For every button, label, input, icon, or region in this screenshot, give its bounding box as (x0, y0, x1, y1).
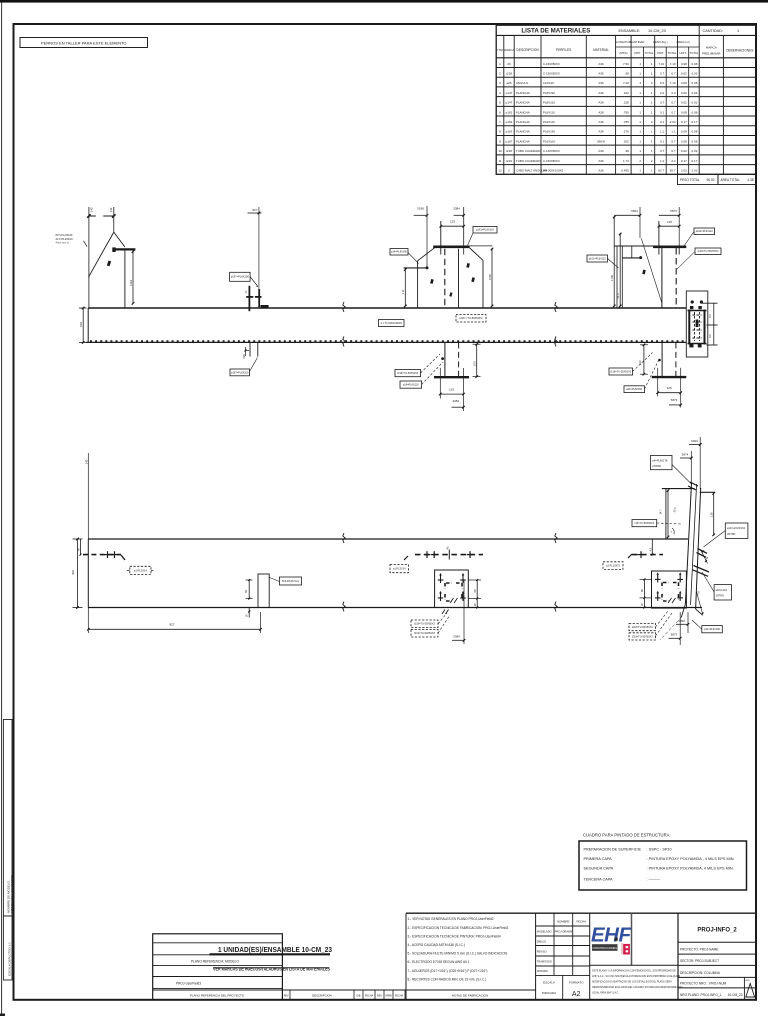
svg-text:.98: .98 (625, 71, 630, 75)
svg-text:REV: REV (284, 994, 289, 997)
view2 mid base plate hidden angles (445, 583, 462, 589)
view1 beam top flange (88, 307, 686, 309)
svg-text:.98: .98 (625, 149, 630, 153)
svg-text:NOMBRE: NOMBRE (557, 920, 569, 924)
svg-text:14.7: 14.7 (659, 509, 663, 515)
svg-text:ENSAMBLE:: ENSAMBLE: (619, 29, 641, 33)
view1 right below labels (609, 368, 633, 375)
svg-text:LISTA DE MATERIALES: LISTA DE MATERIALES (521, 28, 590, 35)
svg-text:ALT=PL203/16: ALT=PL203/16 (56, 237, 74, 241)
svg-text:1.74: 1.74 (623, 159, 629, 163)
svg-text:4mm mm d: 4mm mm d (56, 241, 70, 245)
svg-text:PL6X110: PL6X110 (543, 110, 555, 114)
materials table column lines (503, 35, 505, 174)
svg-text:A36: A36 (598, 159, 604, 163)
svg-text:ESCALA DEPLOTEO 1:1: ESCALA DEPLOTEO 1:1 (7, 942, 11, 976)
svg-text:PLANCHA: PLANCHA (516, 91, 530, 95)
svg-text:125: 125 (667, 220, 672, 224)
svg-text:MARCA: MARCA (504, 48, 515, 52)
svg-text:2NTRD: 2NTRD (716, 595, 725, 598)
svg-text:PRELIMINAR: PRELIMINAR (702, 52, 721, 56)
view1 dim 125 top mid (441, 225, 464, 227)
svg-text:2.- ESPECIFICACION TECNICA DE: 2.- ESPECIFICACION TECNICA DE FABRICACIO… (408, 926, 509, 930)
svg-text:PL8X190: PL8X190 (543, 91, 555, 95)
svg-text:MATERIAL: MATERIAL (593, 48, 609, 52)
view2 label a1 dashed (130, 566, 151, 574)
view1 mid left bracket (404, 267, 428, 269)
svg-text:CANTIDAD: CANTIDAD (630, 40, 644, 44)
svg-text:50: 50 (473, 589, 477, 592)
svg-text:82.7: 82.7 (658, 169, 664, 173)
view1 mid below-beam labels (395, 370, 421, 377)
view1 mid right vertical dim (491, 248, 493, 307)
view2 bracket vertical dim 14.7 (667, 490, 669, 538)
svg-text:PLANCHA: PLANCHA (516, 110, 530, 114)
svg-text:A2: A2 (572, 991, 581, 998)
svg-text:t219: t219 (506, 159, 512, 163)
view2 diagonal bottom leader lines (660, 617, 681, 640)
svg-text:1736: 1736 (610, 275, 614, 281)
EHF logo constructiones bar (592, 944, 618, 951)
svg-text:p14=PL8X190: p14=PL8X190 (391, 251, 408, 254)
view1 gusset vertical dim (132, 251, 134, 304)
top scan bar (0, 0, 768, 3)
svg-text:p161=PL6X110: p161=PL6X110 (476, 228, 494, 232)
title block left stack box (153, 934, 283, 1000)
svg-text:0.98: 0.98 (692, 62, 698, 66)
svg-text:.785: .785 (623, 120, 629, 124)
view1 end plate outer (686, 291, 708, 357)
svg-text:A36: A36 (598, 120, 604, 124)
svg-text:5873: 5873 (670, 209, 677, 213)
view1 right dim 125 (659, 225, 679, 227)
svg-text:82.7: 82.7 (670, 169, 676, 173)
left margin model-name strip (3, 720, 12, 917)
svg-text:PROJ-INFO_2: PROJ-INFO_2 (697, 928, 737, 934)
svg-text:HA-200X100X5: HA-200X100X5 (543, 169, 563, 173)
view2 label p4 top (651, 455, 673, 469)
svg-text:A36: A36 (598, 169, 604, 173)
svg-text:C-150X50X3: C-150X50X3 (543, 149, 560, 153)
svg-text:3384: 3384 (453, 635, 460, 639)
svg-text:t218: t218 (506, 71, 512, 75)
svg-text:1.03: 1.03 (472, 361, 476, 367)
view2 right 4.5 dim (651, 539, 653, 555)
svg-text:ESTE PLANO Y LA INFORMACION CO: ESTE PLANO Y LA INFORMACION CONTENIDA EN… (592, 970, 676, 973)
svg-text:0.08: 0.08 (681, 130, 687, 134)
svg-text:INDICADA: INDICADA (542, 991, 556, 995)
svg-text:MARCA: MARCA (706, 46, 717, 50)
view1 right below dim 5873 (669, 404, 681, 406)
view1 shop bolt cross 2 (258, 289, 260, 307)
svg-text:DIB: DIB (357, 994, 361, 997)
view2 dims 5850 5873 (687, 612, 689, 633)
svg-text:NRO.PLANO: PROJ-INFO_1: NRO.PLANO: PROJ-INFO_1 (680, 993, 721, 997)
svg-text:0.08: 0.08 (692, 110, 698, 114)
view2 mid below labels dashed (411, 620, 438, 628)
svg-text:ESCALA: ESCALA (543, 981, 555, 985)
view2 diagonal lower stub (681, 604, 685, 617)
svg-text:p163: p163 (506, 130, 513, 134)
svg-text:ITM: ITM (497, 48, 503, 52)
svg-text:.276: .276 (623, 130, 629, 134)
view1 right assembly verticals (616, 246, 618, 308)
EHF logo box (631, 913, 633, 965)
svg-text:5.- SOLDADURA FILETE MINIMO 5: 5.- SOLDADURA FILETE MINIMO 5 mm (S.I.C.… (408, 952, 508, 956)
svg-text:6795: 6795 (488, 274, 492, 280)
svg-text:2.02: 2.02 (692, 169, 698, 173)
view1 right rotated dims (613, 216, 615, 307)
view2 right below dashed labels (629, 624, 656, 631)
view2 left extension line (87, 453, 89, 539)
svg-text:TERCERA CAPA: TERCERA CAPA (584, 878, 614, 882)
view2 mid bolt centerline (415, 554, 483, 556)
svg-text:UNIT.: UNIT. (634, 51, 641, 55)
view2 bracket small arc (672, 528, 674, 534)
svg-text:125: 125 (450, 220, 455, 224)
svg-text:2.02: 2.02 (681, 169, 687, 173)
title block outer top edge (406, 912, 756, 914)
materials table data rows (496, 67, 756, 69)
svg-text:RESPONSABILIDAD EXCLUSIVA DEL: RESPONSABILIDAD EXCLUSIVA DEL USUARIO SI… (592, 986, 682, 989)
svg-text:8.- RECORTES CON RADIOS MIN. D: 8.- RECORTES CON RADIOS MIN. DE 15 mm. (… (408, 977, 487, 981)
view1 mid below-beam vertical dim (476, 344, 478, 376)
svg-text:p162=PL6X110: p162=PL6X110 (696, 230, 714, 233)
view1 mid connection extension line (426, 206, 428, 268)
svg-text:: SSPC - SP10: : SSPC - SP10 (647, 848, 672, 852)
svg-text:TOTAL: TOTAL (668, 51, 677, 55)
view2 diagonal member (685, 483, 691, 604)
view2 mid dim 3384 (463, 580, 465, 644)
view2 tab label box (280, 577, 302, 585)
svg-text:APRB: APRB (385, 994, 392, 997)
svg-text:TUBO CUADRADO: TUBO CUADRADO (516, 159, 542, 163)
view2 right dashed label p1 (603, 562, 623, 570)
svg-text:0.7: 0.7 (660, 149, 665, 153)
svg-text:2NTRD: 2NTRD (727, 533, 736, 536)
svg-text:125: 125 (667, 386, 672, 390)
view2 right bolt centerline (632, 554, 663, 556)
svg-text:C-150X50X3: C-150X50X3 (543, 62, 560, 66)
view2 dim 827 bottom (87, 608, 89, 634)
svg-text:0.17: 0.17 (692, 120, 698, 124)
svg-text:6023: 6023 (691, 439, 698, 443)
view1 beam left end line (87, 308, 89, 342)
view1 break marks right (555, 302, 557, 312)
svg-text:0.7: 0.7 (660, 71, 665, 75)
svg-text:: PINTURA EPOXY POLYAMIDA, 4 M: : PINTURA EPOXY POLYAMIDA, 4 MILS EPS MI… (647, 867, 734, 871)
view1 profile label on beam (379, 320, 405, 327)
view1 right below-beam vertical dim 1.03 (643, 345, 645, 374)
svg-text:t218=TU-50X50X3: t218=TU-50X50X3 (632, 626, 653, 629)
svg-text:FECHA: FECHA (395, 994, 404, 997)
svg-text:0.08: 0.08 (692, 81, 698, 85)
svg-text:C-150X50X3: C-150X50X3 (543, 159, 560, 163)
svg-text:TOTAL: TOTAL (690, 51, 699, 55)
svg-text:: ———: : ——— (647, 878, 661, 882)
svg-text:PL6X110: PL6X110 (543, 120, 555, 124)
svg-text:0.7: 0.7 (671, 71, 676, 75)
title block nombre-fecha table (553, 913, 555, 975)
svg-text:p167: p167 (506, 139, 513, 143)
view2 44 dim (701, 550, 708, 564)
view2 dim 6023 (689, 444, 700, 446)
view2 mid base plate weld hatch (450, 598, 458, 603)
svg-text:12: 12 (498, 169, 502, 173)
view1 mid below-beam stiffeners (444, 342, 446, 376)
view2 right base plate hidden angles (662, 583, 679, 589)
svg-text:SOLD3/16-5cm: SOLD3/16-5cm (282, 580, 299, 583)
svg-text:FECHA: FECHA (576, 920, 586, 924)
svg-text:t218=TU-50X50X3: t218=TU-50X50X3 (610, 370, 631, 373)
view1 mid below-beam dim 125 (440, 393, 463, 395)
svg-text:0.1: 0.1 (660, 120, 665, 124)
svg-text:3384: 3384 (453, 207, 460, 211)
svg-text:t218: t218 (506, 149, 512, 153)
svg-text:0.98: 0.98 (681, 62, 687, 66)
svg-text:a26: a26 (506, 81, 511, 85)
svg-text:p161=PL6X110: p161=PL6X110 (589, 257, 607, 260)
svg-text:a40=L2X2: a40=L2X2 (716, 589, 728, 592)
view1 weld dash on beam (261, 305, 269, 308)
svg-text:: PINTURA EPOXY POLYAMIDA , 4: : PINTURA EPOXY POLYAMIDA , 4 MILS EPS M… (647, 857, 735, 861)
svg-text:1.1: 1.1 (660, 130, 665, 134)
svg-text:0.08: 0.08 (692, 130, 698, 134)
svg-text:1.2: 1.2 (660, 159, 665, 163)
materials table title row (496, 34, 756, 36)
svg-text:50: 50 (244, 590, 248, 593)
svg-text:A36: A36 (598, 101, 604, 105)
svg-text:FORMATO: FORMATO (569, 981, 584, 985)
view2 mid base plate (435, 570, 469, 608)
svg-text:10-CM_23: 10-CM_23 (648, 29, 666, 33)
svg-text:4.38: 4.38 (747, 178, 753, 182)
svg-text:p41=PL6X160: p41=PL6X160 (704, 628, 721, 631)
view2 mid tab plate (258, 574, 269, 608)
view1 shop bolt cross 1 (248, 286, 250, 311)
svg-text:a1-PL2X14: a1-PL2X14 (393, 568, 406, 571)
outer thin border left (1, 2, 3, 1016)
svg-text:NOTAS DE FABRICACION: NOTAS DE FABRICACION (452, 993, 488, 997)
svg-text:MODELADO: MODELADO (537, 930, 552, 934)
view1 mid weld marks (430, 279, 434, 284)
view1 mid column body (417, 261, 419, 308)
svg-text:50: 50 (640, 589, 644, 592)
svg-text:PROYECTO: PROJ-NAME: PROYECTO: PROJ-NAME (680, 948, 718, 952)
view1 break marks left (343, 302, 345, 312)
view1 end plate inner cross dashes (693, 314, 702, 316)
svg-text:REVISO: REVISO (537, 949, 547, 953)
svg-text:p1-PL10X75: p1-PL10X75 (606, 565, 621, 568)
svg-text:MET-PUNAE UAN OESTER: MET-PUNAE UAN OESTER (10, 874, 14, 913)
view1 right weld mark (642, 270, 646, 275)
svg-text:1.36: 1.36 (710, 512, 714, 518)
svg-text:PLANCHA: PLANCHA (516, 101, 530, 105)
svg-text:300: 300 (71, 570, 75, 575)
view1 end plate inner channel (688, 310, 690, 345)
svg-text:EHF S.A.C., SU USO SIN PREVIA: EHF S.A.C., SU USO SIN PREVIA AUTORIZACI… (592, 975, 680, 978)
title block right column (677, 913, 679, 1000)
svg-text:PROJ-DRAWN: PROJ-DRAWN (555, 930, 573, 934)
svg-text:DIBUJO: DIBUJO (537, 939, 547, 943)
view2 mid weld marks below (442, 610, 449, 615)
svg-text:PLANCHA: PLANCHA (516, 130, 530, 134)
svg-text:t218=TU-50X50X3: t218=TU-50X50X3 (397, 372, 418, 375)
svg-text:0.7: 0.7 (671, 149, 676, 153)
svg-text:TRAMITADO: TRAMITADO (537, 960, 552, 964)
svg-text:a1-PL2X14: a1-PL2X14 (134, 568, 148, 572)
title block escala formato cells (562, 975, 564, 999)
view1 right label p162 (694, 228, 715, 235)
svg-text:AREA (m²): AREA (m²) (676, 40, 689, 44)
view1 gusset weld mark (107, 260, 111, 266)
svg-text:A36: A36 (598, 81, 604, 85)
svg-text:a41=L2X2X3/16: a41=L2X2X3/16 (727, 527, 746, 530)
svg-text:CANTIDAD:: CANTIDAD: (703, 29, 723, 33)
svg-text:827+PL203/16: 827+PL203/16 (56, 233, 74, 237)
svg-text:PL6X100: PL6X100 (543, 139, 555, 143)
svg-text:FECHA: FECHA (365, 994, 374, 997)
svg-text:0.02: 0.02 (681, 71, 687, 75)
svg-text:PRIMERA CAPA: PRIMERA CAPA (584, 857, 613, 861)
svg-text:p16=PL6X110: p16=PL6X110 (403, 384, 419, 387)
svg-text:AREA TOTAL: AREA TOTAL (721, 178, 741, 182)
svg-text:TOTAL: TOTAL (645, 51, 654, 55)
svg-text:0.06: 0.06 (681, 91, 687, 95)
view2 mid tab dims (248, 580, 250, 599)
view2 bolt centerline left (83, 554, 121, 556)
svg-text:7.- AGUJEROS (D17+1/16"), (D20: 7.- AGUJEROS (D17+1/16"), (D20+5/16"),P … (408, 969, 488, 973)
svg-text:PESO TOTAL: PESO TOTAL (680, 178, 700, 182)
svg-text:142: 142 (109, 207, 113, 212)
svg-text:1.11: 1.11 (401, 289, 405, 294)
svg-text:PESO (Kg.): PESO (Kg.) (653, 40, 668, 44)
view1 right bracket (622, 257, 641, 259)
svg-text:.790: .790 (623, 110, 629, 114)
svg-text:5873: 5873 (671, 632, 678, 636)
view1 top dimension line 140/142 (88, 207, 90, 308)
svg-text:A36: A36 (598, 149, 604, 153)
view1 mid top plate (433, 246, 470, 249)
view1 right below-beam stiffeners (661, 342, 663, 376)
svg-text:3384: 3384 (452, 399, 459, 403)
svg-text:C-150X50X3: C-150X50X3 (543, 71, 560, 75)
view2 t15 label (632, 520, 657, 527)
svg-text:0.7: 0.7 (671, 101, 676, 105)
svg-text:A36: A36 (598, 62, 604, 66)
view2 p41 label bottom (702, 626, 723, 633)
svg-text:p167=PL6X100: p167=PL6X100 (231, 275, 250, 279)
svg-text:5604: 5604 (631, 209, 638, 213)
svg-text:OBSERVACIONES: OBSERVACIONES (726, 49, 753, 53)
svg-text:t219=TU-50X50X3: t219=TU-50X50X3 (414, 632, 435, 635)
view1 hidden profile label on beam (456, 315, 486, 323)
svg-text:7.10: 7.10 (670, 81, 676, 85)
svg-text:2.0: 2.0 (671, 91, 676, 95)
svg-text:t218=TU-50X50X3: t218=TU-50X50X3 (414, 623, 435, 626)
materials table header rows (496, 57, 756, 59)
svg-text:0.495: 0.495 (621, 169, 629, 173)
view2 angle braces on diagonal (697, 549, 708, 558)
svg-text:0.02: 0.02 (692, 71, 698, 75)
svg-text:7.00: 7.00 (623, 81, 629, 85)
svg-text:REV: REV (377, 994, 382, 997)
svg-text:LONGITUD: LONGITUD (616, 40, 631, 44)
svg-text:3198: 3198 (417, 207, 424, 211)
svg-text:t218 = TU-50X50X3: t218 = TU-50X50X3 (460, 316, 484, 320)
svg-text:0.06: 0.06 (692, 91, 698, 95)
svg-text:6.0: 6.0 (708, 314, 712, 318)
svg-text:PERNOS EN TALLER PARA ESTE ELE: PERNOS EN TALLER PARA ESTE ELEMENTO (41, 41, 127, 46)
svg-text:0.1: 0.1 (660, 139, 665, 143)
svg-text:1: 1 (737, 29, 739, 33)
svg-text:A36: A36 (598, 71, 604, 75)
svg-text:3.- ESPECIFICACION TECNICA DE: 3.- ESPECIFICACION TECNICA DE PINTURA: P… (408, 934, 501, 938)
svg-text:PROJ-UserField3: PROJ-UserField3 (176, 981, 201, 985)
view2 mid dashed label a1 (390, 565, 409, 573)
svg-text:2 = TU100X100X5: 2 = TU100X100X5 (381, 321, 403, 325)
view1 end plate center weld block (696, 320, 699, 328)
svg-text:827: 827 (169, 623, 174, 627)
view1 dim 827 (258, 207, 260, 290)
view1 right column body (661, 248, 663, 308)
svg-text:a26=PL50X50: a26=PL50X50 (626, 388, 643, 391)
title block bottom revision row (153, 989, 536, 991)
svg-text:.228: .228 (623, 101, 629, 105)
svg-text:2.0: 2.0 (660, 91, 665, 95)
svg-text:7.10: 7.10 (658, 62, 664, 66)
title block notes box (405, 913, 407, 1000)
svg-text:0.08: 0.08 (681, 110, 687, 114)
view2 a40 label (714, 585, 731, 600)
svg-text:0.02: 0.02 (692, 149, 698, 153)
view1 below-beam left label (230, 369, 250, 376)
view1 end plate bolt dim (713, 303, 715, 345)
svg-text:APROBO: APROBO (537, 969, 548, 973)
view2 break marks (343, 533, 345, 543)
left margin plot-scale strip (3, 916, 12, 980)
view1 below-beam left pair (249, 342, 251, 356)
svg-text:2.4: 2.4 (671, 159, 676, 163)
view2 top bracket (662, 488, 695, 490)
view2 right base plate (652, 571, 687, 608)
svg-text:125: 125 (449, 387, 454, 391)
svg-text:0.08: 0.08 (681, 139, 687, 143)
svg-text:PREPARACION DE SUPERFICIE: PREPARACION DE SUPERFICIE (584, 848, 642, 852)
svg-text:7.10: 7.10 (670, 62, 676, 66)
svg-text:p147: p147 (506, 91, 513, 95)
svg-text:1 UNIDAD(ES)/ENSAMBLE 10-CM_23: 1 UNIDAD(ES)/ENSAMBLE 10-CM_23 (218, 945, 332, 954)
view1 right label t219 (695, 248, 721, 255)
view1 mid label p14 left (390, 249, 408, 256)
svg-text:t15=TU-50X50X3: t15=TU-50X50X3 (635, 522, 655, 525)
svg-text:96.50: 96.50 (707, 178, 715, 182)
view2 dim 45 top-left (80, 539, 82, 555)
svg-text:PLANCHA: PLANCHA (516, 120, 530, 124)
svg-text:A36: A36 (598, 91, 604, 95)
view1 end plate bolts top (691, 300, 694, 303)
svg-text:MODIFICACION O ADAPTACION DE L: MODIFICACION O ADAPTACION DE LOS DETALLE… (592, 981, 672, 984)
view2 beam left end line (87, 539, 89, 608)
view1 right long leader (641, 238, 661, 302)
svg-text:TUBO CUADRADO: TUBO CUADRADO (516, 149, 542, 153)
svg-text:DESCRIPCION: COLUMNA: DESCRIPCION: COLUMNA (680, 971, 721, 975)
svg-text:2.04: 2.04 (670, 120, 676, 124)
svg-text:t219=TU-50X50X3: t219=TU-50X50X3 (698, 250, 719, 253)
view1 right dim 5604 (614, 214, 640, 216)
svg-text:PROYECTO NRO. : PROJ-NUM: PROYECTO NRO. : PROJ-NUM (680, 982, 727, 986)
svg-text:1.- VER NOTAS GENERALES EN PLA: 1.- VER NOTAS GENERALES EN PLANO PROJ-Us… (408, 917, 494, 921)
